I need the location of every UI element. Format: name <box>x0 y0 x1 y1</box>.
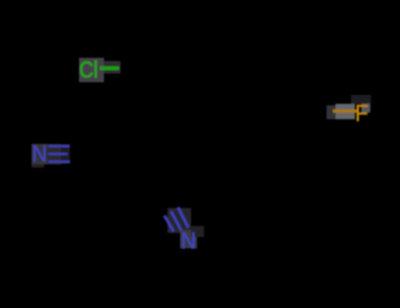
small gray strip under N1 <box>32 165 45 168</box>
svg-text:F: F <box>355 100 368 126</box>
triple bond C#N1 line 1 <box>48 145 69 147</box>
svg-text:Cl: Cl <box>79 56 98 83</box>
svg-text:N: N <box>32 140 47 166</box>
bond C-F (orange half) <box>333 109 357 112</box>
label box behind N2 <box>180 230 197 248</box>
label box behind Cl <box>79 58 104 82</box>
triple bond C#N1 line 3 <box>48 160 70 162</box>
gray block behind upper-right of F <box>361 104 370 113</box>
light box behind C-F bond <box>335 104 355 119</box>
dim patch behind N2 triple bond <box>168 208 192 233</box>
dimmer patch right of N1 triple bond <box>61 144 70 164</box>
dim patch right of N2 <box>191 226 204 237</box>
dim patch behind C-Cl bond <box>104 61 121 74</box>
faint patch above F <box>351 95 371 104</box>
label box behind N1 <box>32 144 48 165</box>
dark strip left of C-F bond box <box>327 105 336 119</box>
triple bond C#N2 line 1 <box>178 207 188 227</box>
triple bond C#N1 line 2 <box>48 153 67 155</box>
svg-text:N: N <box>181 228 196 254</box>
triple bond C#N2 line 2 <box>171 211 181 230</box>
triple bond C#N2 line 3 <box>164 216 173 232</box>
bond Cl-CH2 (green half) <box>100 66 119 70</box>
dim patch behind N1 triple bond <box>47 144 61 165</box>
